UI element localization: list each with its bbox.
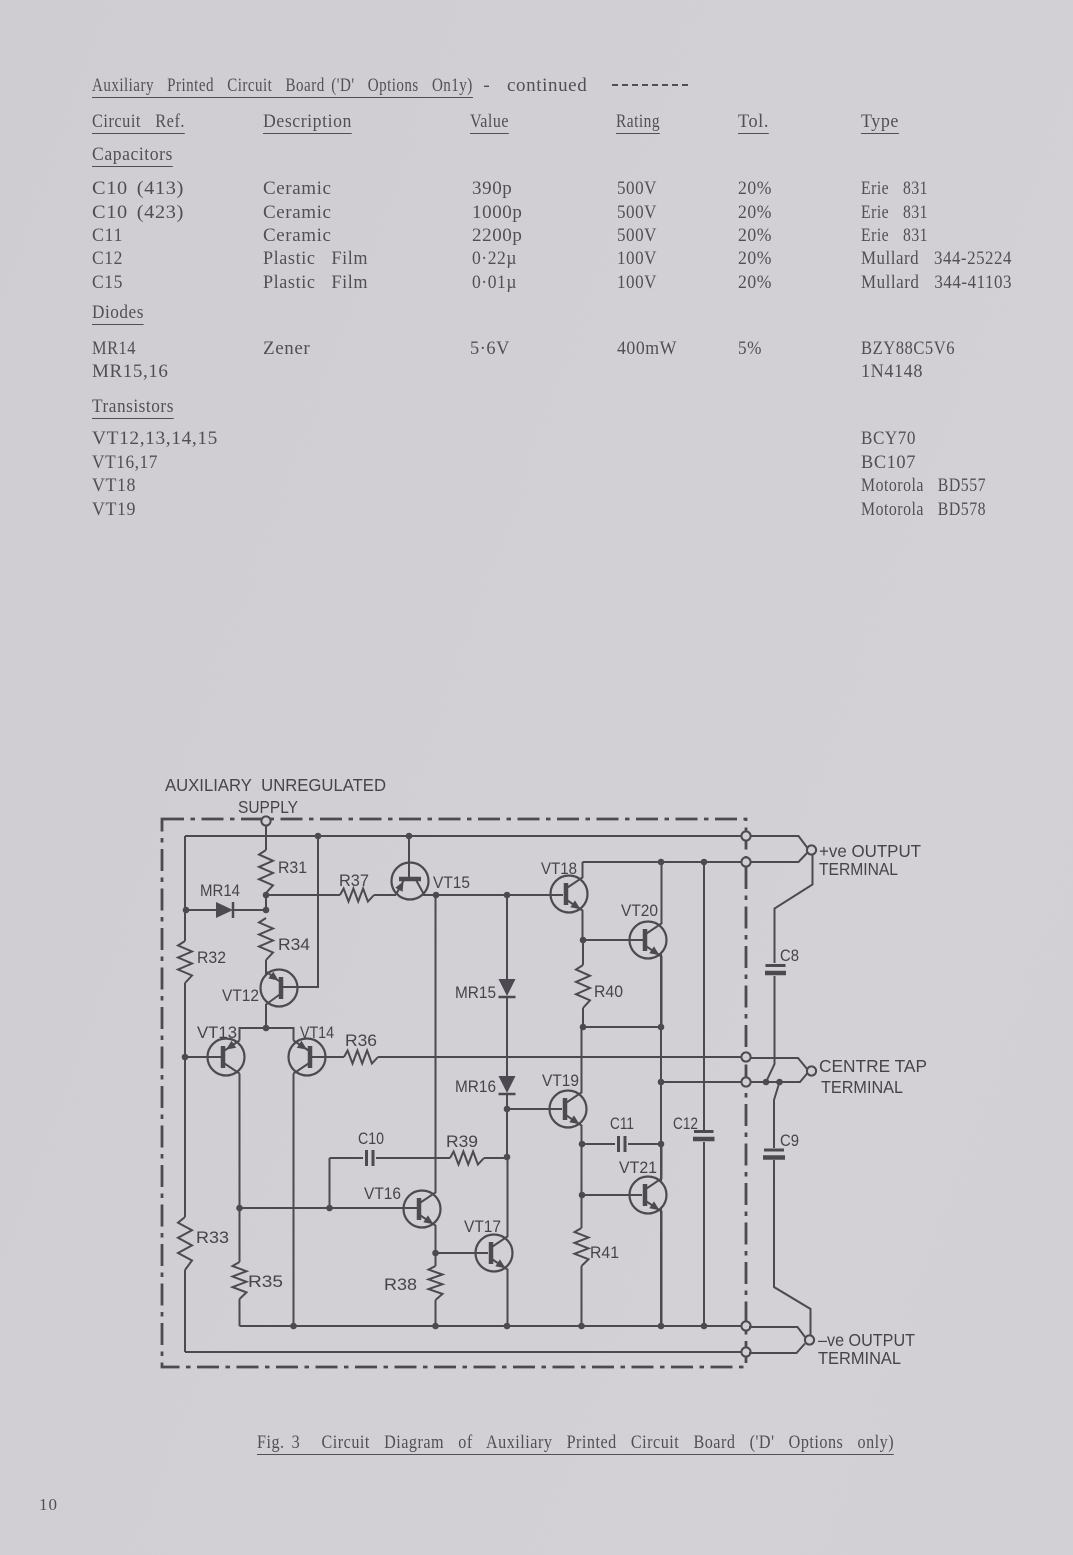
node junction C8 on centre link xyxy=(763,1079,770,1086)
table row VT19 xyxy=(0,498,1073,500)
node feedthrough +ve rail xyxy=(741,831,750,840)
page number xyxy=(39,1495,1073,1515)
node junction C10 branch xyxy=(326,1205,333,1212)
node junction VT16 emitter / VT17 base / R38 xyxy=(432,1250,439,1257)
wire VT12 base to top rail feed xyxy=(281,836,318,987)
svg-text:VT17: VT17 xyxy=(464,1218,501,1236)
node junction left rail / MR14 xyxy=(183,907,190,914)
svg-text:C12: C12 xyxy=(673,1115,698,1133)
supply input terminal xyxy=(261,816,270,825)
svg-text:C10: C10 xyxy=(358,1130,384,1148)
capacitor C11 xyxy=(582,1115,661,1152)
transistor VT16 xyxy=(364,895,441,1253)
wire MR15 to MR16 xyxy=(506,997,508,1076)
wire VT19 emitter chain xyxy=(581,1144,583,1195)
svg-text:TERMINAL: TERMINAL xyxy=(819,859,898,879)
table row C12 xyxy=(0,247,1073,249)
node junction VT17 emitter / bottom rail xyxy=(504,1323,511,1330)
svg-text:R33: R33 xyxy=(196,1229,229,1247)
node feedthrough -ve outer rail xyxy=(741,1347,750,1356)
table row MR15,16 xyxy=(0,360,1073,362)
node junction VT14 collector / bottom rail xyxy=(290,1323,297,1330)
svg-text:TERMINAL: TERMINAL xyxy=(818,1348,901,1368)
wire supply to R31 xyxy=(265,826,267,850)
node feedthrough -ve inner rail xyxy=(741,1321,750,1330)
node junction top rail / VT12 base feed xyxy=(315,833,322,840)
capacitor C12 xyxy=(673,862,715,1326)
wire left rail middle (R32 to R33) xyxy=(184,983,186,1217)
wire VT13 base from left rail xyxy=(185,1056,223,1058)
wire bottom inner rail xyxy=(240,1325,742,1327)
svg-text:VT19: VT19 xyxy=(542,1072,579,1090)
svg-text:R40: R40 xyxy=(594,983,623,1001)
node junction left rail VT13 base xyxy=(182,1054,189,1061)
node junction C9 on centre link xyxy=(776,1079,783,1086)
resistor R39 xyxy=(446,1133,507,1165)
wire VT18 collector rail xyxy=(583,861,742,863)
resistor R41 xyxy=(575,1195,620,1326)
wire left rail lower (R33 to bottom outer rail) xyxy=(184,1270,186,1352)
node junction VT15/VT16 feedback xyxy=(433,892,440,899)
wire MR16 to VT19 base junction xyxy=(506,1094,508,1157)
node junction R38 / bottom rail xyxy=(432,1323,439,1330)
transistor VT18 xyxy=(541,860,588,940)
svg-text:VT14: VT14 xyxy=(300,1024,334,1042)
node junction C12 top xyxy=(701,859,708,866)
wire bottom outer rail xyxy=(185,1351,741,1353)
figure caption xyxy=(0,1431,1073,1433)
section header Capacitors xyxy=(0,143,1073,145)
node feedthrough VT18 collector rail xyxy=(741,857,750,866)
transistor VT13 xyxy=(197,1024,245,1076)
svg-text:VT12: VT12 xyxy=(222,987,259,1005)
svg-text:R34: R34 xyxy=(278,936,310,954)
node junction VT21 emitter / bottom rail xyxy=(658,1323,665,1330)
resistor R37 xyxy=(339,872,374,902)
transistor VT15 xyxy=(392,836,471,900)
wire R31 junction to R37 xyxy=(266,894,340,896)
table row C10 (413) xyxy=(0,177,1073,179)
svg-text:MR16: MR16 xyxy=(455,1078,496,1096)
svg-text:R39: R39 xyxy=(446,1133,478,1151)
wire centre tap rail xyxy=(378,1056,741,1058)
table row VT16,17 xyxy=(0,451,1073,453)
svg-text:AUXILIARY UNREGULATED: AUXILIARY UNREGULATED xyxy=(165,775,386,795)
node centre tap terminal xyxy=(807,1066,816,1075)
wire R34 to VT12 emitter xyxy=(265,960,267,975)
resistor R34 xyxy=(259,918,310,960)
wire VT15 collector to VT18 base xyxy=(423,894,563,896)
wire VT20 emitter vertical xyxy=(660,953,662,1181)
wire VT21 emitter vertical xyxy=(660,1208,662,1326)
wire left rail upper (rail to R32) xyxy=(184,836,186,941)
wire VT17 base xyxy=(436,1252,489,1254)
wire R40 bottom to VT20 emitter xyxy=(583,1026,661,1028)
wire +ve terminal to C8 xyxy=(775,855,813,963)
svg-text:VT21: VT21 xyxy=(619,1159,657,1177)
transistor VT21 xyxy=(619,1144,667,1326)
node junction R31/R37 xyxy=(263,892,270,899)
wire VT16 base rail xyxy=(240,1207,420,1209)
wire VT18 emitter to VT20 base xyxy=(583,939,645,941)
table row VT18 xyxy=(0,474,1073,476)
node junction VT20 emitter / C12 branch xyxy=(658,1024,665,1031)
resistor R31 xyxy=(259,850,307,893)
section header Transistors xyxy=(0,395,1073,397)
wire centre tap links xyxy=(751,1058,808,1082)
node junction VT12 collector on top link xyxy=(263,1025,270,1032)
node junction R39 / MR16 line / VT17 collector xyxy=(504,1154,511,1161)
resistor R40 xyxy=(576,940,623,1027)
resistor R36 xyxy=(344,1032,378,1064)
node +ve OUTPUT TERMINAL label xyxy=(819,841,921,879)
node junction VT13 collector / VT16 base rail xyxy=(236,1205,243,1212)
node junction VT18 emitter / R40 / VT20 base xyxy=(580,937,587,944)
node feedthrough centre tap lower xyxy=(741,1077,750,1086)
capacitor C8 xyxy=(765,947,799,1082)
node junction C12 / bottom rail xyxy=(701,1323,708,1330)
node junction MR16 / VT19 base xyxy=(504,1106,511,1113)
svg-text:TERMINAL: TERMINAL xyxy=(821,1077,903,1097)
svg-text:R38: R38 xyxy=(384,1276,417,1294)
resistor R33 xyxy=(178,1217,229,1270)
transistor VT19 xyxy=(542,1027,587,1144)
wire VT14 base to R36 xyxy=(310,1056,344,1058)
svg-text:VT15: VT15 xyxy=(433,874,470,892)
svg-text:VT20: VT20 xyxy=(621,902,658,920)
transistor VT14 xyxy=(289,1024,335,1076)
parts table heading xyxy=(0,74,1073,76)
transistor VT17 xyxy=(464,1157,513,1326)
node +ve output terminal xyxy=(807,845,816,854)
table row C10 (423) xyxy=(0,201,1073,203)
svg-text:–ve OUTPUT: –ve OUTPUT xyxy=(818,1330,915,1350)
wire VT13 emitter to VT14 emitter (top link) xyxy=(240,1028,294,1041)
wire -ve output links xyxy=(749,1327,805,1353)
node junction top rail / VT15 base feed xyxy=(406,833,413,840)
resistor R38 xyxy=(384,1253,443,1326)
resistor R32 xyxy=(178,941,226,983)
capacitor C9 xyxy=(763,1082,811,1335)
wire +ve output links xyxy=(751,836,808,862)
section header Diodes xyxy=(0,301,1073,303)
svg-text:R41: R41 xyxy=(590,1244,619,1262)
svg-text:+ve OUTPUT: +ve OUTPUT xyxy=(819,841,921,861)
svg-text:VT13: VT13 xyxy=(197,1024,237,1042)
table column headers xyxy=(0,110,1073,112)
node junction VT20 emitter line / centre wire xyxy=(658,1079,665,1086)
node -ve OUTPUT TERMINAL label xyxy=(818,1330,915,1368)
table row C11 xyxy=(0,224,1073,226)
node junction C11 right / VT21 collector xyxy=(658,1141,665,1148)
transistor VT12 xyxy=(222,970,298,1007)
wire top unregulated rail xyxy=(185,835,741,837)
wire C10 branch down to VT16 base wire xyxy=(329,1158,331,1208)
table row C15 xyxy=(0,271,1073,273)
heading trailing dashes xyxy=(612,84,689,86)
wire VT12 collector down to VT13/VT14 emitter rail xyxy=(265,1004,267,1028)
wire VT19 base xyxy=(507,1108,562,1110)
node junction R41 / bottom rail xyxy=(578,1323,585,1330)
dash-dot border of auxiliary board xyxy=(162,819,746,1367)
wire R31 bottom to MR14 junction xyxy=(265,893,267,910)
svg-text:C11: C11 xyxy=(610,1115,634,1133)
svg-text:SUPPLY: SUPPLY xyxy=(238,797,298,817)
node feedthrough centre tap upper xyxy=(741,1052,750,1061)
svg-text:C8: C8 xyxy=(780,947,799,965)
svg-text:R37: R37 xyxy=(339,872,369,890)
svg-text:CENTRE TAP: CENTRE TAP xyxy=(819,1056,927,1076)
diode MR14 xyxy=(186,882,265,918)
wire R35 hang from VT16 base rail xyxy=(239,1208,241,1262)
capacitor C10 xyxy=(330,1130,451,1166)
node junction VT20 collector xyxy=(658,859,665,866)
svg-text:R35: R35 xyxy=(248,1273,283,1291)
svg-text:MR14: MR14 xyxy=(200,882,240,900)
svg-text:R31: R31 xyxy=(278,859,307,877)
diode MR16 xyxy=(455,1076,516,1096)
svg-text:MR15: MR15 xyxy=(455,984,496,1002)
svg-text:R36: R36 xyxy=(345,1032,377,1050)
svg-text:VT18: VT18 xyxy=(541,860,577,878)
wire VT14 collector down to bottom rail xyxy=(293,1074,295,1327)
wire R37 to VT15 emitter xyxy=(374,894,396,896)
node junction MR14/R34 xyxy=(263,907,270,914)
transistor VT20 xyxy=(621,862,667,1027)
wire VT21 base xyxy=(582,1194,642,1196)
node junction VT19 emitter / C11 xyxy=(579,1141,586,1148)
svg-text:C9: C9 xyxy=(780,1132,799,1150)
svg-text:R32: R32 xyxy=(197,949,226,967)
resistor R35 xyxy=(233,1262,284,1326)
node junction MR15 tap xyxy=(504,892,511,899)
node -ve output terminal xyxy=(805,1335,814,1344)
node junction VT21 base xyxy=(579,1192,586,1199)
node CENTRE TAP TERMINAL label xyxy=(819,1056,927,1097)
diode MR15 xyxy=(455,895,516,1002)
node AUXILIARY UNREGULATED SUPPLY label xyxy=(165,775,386,817)
table row VT12,13,14,15 xyxy=(0,427,1073,429)
svg-text:VT16: VT16 xyxy=(364,1185,401,1203)
wire VT13 collector down xyxy=(239,1074,241,1209)
wire centre tap lower link xyxy=(661,1081,741,1083)
table row MR14 xyxy=(0,337,1073,339)
node junction R40 bottom / VT19 collector xyxy=(580,1024,587,1031)
